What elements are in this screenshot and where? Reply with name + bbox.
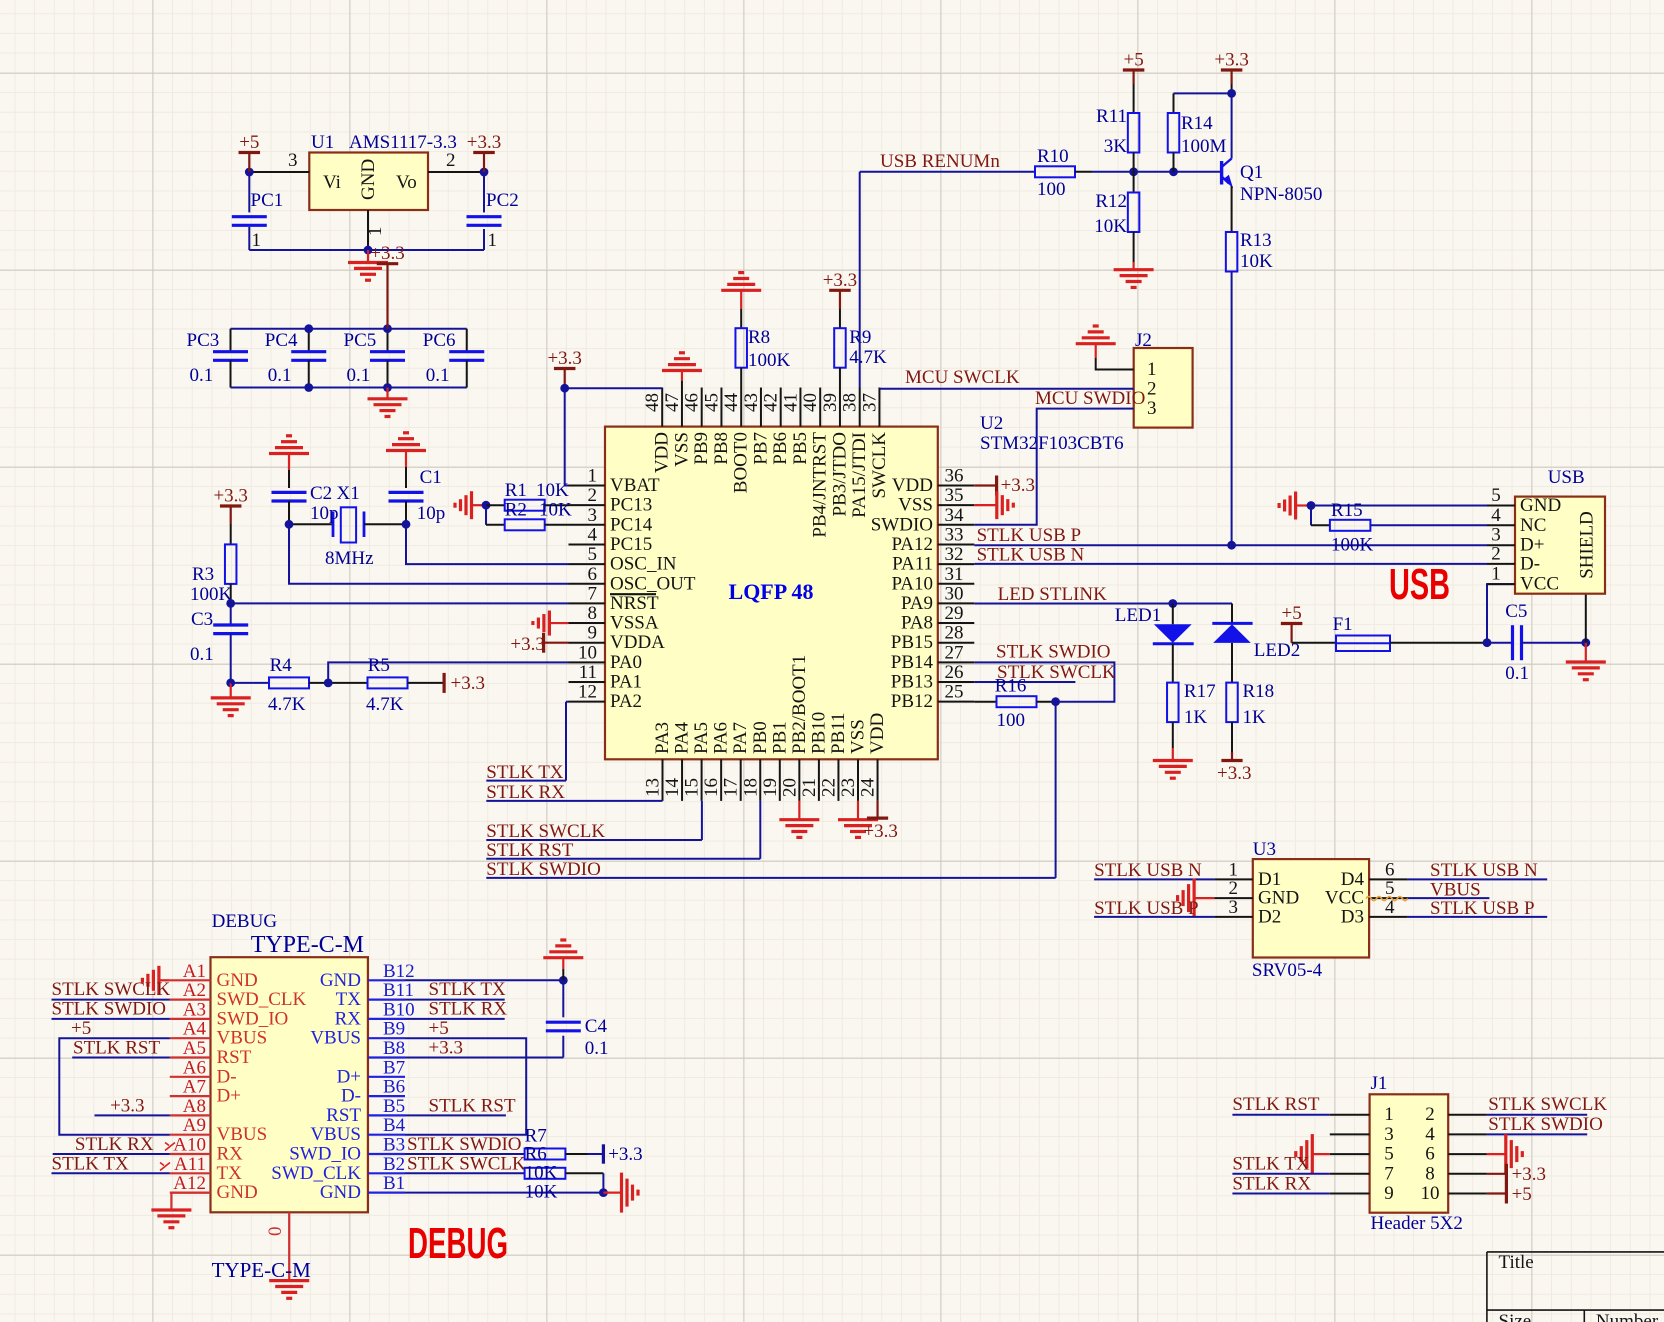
svg-text:28: 28 — [945, 623, 964, 644]
svg-text:37: 37 — [859, 393, 880, 412]
svg-text:VSS: VSS — [671, 432, 692, 467]
svg-text:11: 11 — [579, 662, 597, 683]
svg-text:4: 4 — [588, 524, 598, 545]
svg-text:32: 32 — [945, 544, 964, 565]
svg-text:Size: Size — [1499, 1311, 1532, 1322]
svg-text:A5: A5 — [183, 1038, 206, 1059]
svg-text:9: 9 — [1384, 1183, 1394, 1204]
svg-text:R16: R16 — [995, 676, 1027, 697]
svg-text:+3.3: +3.3 — [863, 821, 897, 842]
svg-text:R18: R18 — [1243, 681, 1275, 702]
svg-text:VSS: VSS — [898, 495, 933, 516]
svg-text:GND: GND — [320, 1182, 361, 1203]
svg-text:USB: USB — [1548, 467, 1585, 488]
svg-text:+3.3: +3.3 — [1217, 763, 1251, 784]
svg-text:10: 10 — [578, 642, 597, 663]
svg-text:+3.3: +3.3 — [1001, 475, 1035, 496]
svg-text:PB15: PB15 — [891, 632, 933, 653]
svg-text:GND: GND — [1520, 495, 1561, 516]
svg-text:STLK SWCLK: STLK SWCLK — [486, 821, 605, 842]
svg-text:STLK USB N: STLK USB N — [1430, 860, 1538, 881]
svg-text:A4: A4 — [183, 1019, 207, 1040]
svg-text:PB5: PB5 — [790, 432, 811, 465]
svg-text:3: 3 — [1384, 1124, 1394, 1145]
svg-text:39: 39 — [820, 393, 841, 412]
svg-text:R13: R13 — [1240, 230, 1272, 251]
svg-text:SWD_IO: SWD_IO — [289, 1144, 361, 1165]
svg-text:RX: RX — [217, 1144, 244, 1165]
svg-text:VBUS: VBUS — [310, 1028, 361, 1049]
svg-text:STLK USB P: STLK USB P — [1094, 898, 1199, 919]
svg-text:4.7K: 4.7K — [849, 347, 887, 368]
svg-text:B4: B4 — [383, 1115, 406, 1136]
svg-text:LED STLINK: LED STLINK — [998, 584, 1108, 605]
svg-text:10p: 10p — [417, 503, 446, 524]
svg-text:SWD_CLK: SWD_CLK — [217, 989, 307, 1010]
svg-text:27: 27 — [945, 642, 964, 663]
svg-text:4.7K: 4.7K — [268, 694, 306, 715]
svg-text:9: 9 — [588, 623, 598, 644]
svg-text:PC4: PC4 — [265, 330, 298, 351]
svg-text:VBUS: VBUS — [310, 1124, 361, 1145]
svg-text:VSSA: VSSA — [610, 613, 659, 634]
svg-text:5: 5 — [1491, 485, 1501, 506]
svg-text:OSC_IN: OSC_IN — [610, 554, 677, 575]
svg-text:C5: C5 — [1505, 601, 1527, 622]
svg-text:C3: C3 — [191, 609, 213, 630]
svg-text:B3: B3 — [383, 1135, 405, 1156]
svg-text:B6: B6 — [383, 1077, 405, 1098]
svg-text:TX: TX — [217, 1163, 243, 1184]
svg-text:45: 45 — [701, 393, 722, 412]
svg-text:33: 33 — [945, 524, 964, 545]
svg-text:STLK USB P: STLK USB P — [1430, 898, 1535, 919]
svg-text:PC15: PC15 — [610, 534, 652, 555]
svg-text:VBUS: VBUS — [217, 1028, 268, 1049]
svg-text:B7: B7 — [383, 1057, 405, 1078]
svg-text:STLK SWDIO: STLK SWDIO — [486, 859, 601, 880]
svg-text:PA15/JTDI: PA15/JTDI — [849, 432, 870, 518]
svg-text:10K: 10K — [1240, 251, 1273, 272]
svg-text:VBUS: VBUS — [217, 1124, 268, 1145]
svg-text:0: 0 — [265, 1227, 286, 1237]
svg-text:SHIELD: SHIELD — [1577, 511, 1598, 579]
svg-text:R5: R5 — [368, 655, 390, 676]
svg-text:24: 24 — [858, 778, 879, 798]
svg-text:2: 2 — [446, 150, 456, 171]
svg-text:1: 1 — [252, 230, 262, 251]
svg-text:1: 1 — [488, 230, 498, 251]
svg-text:STLK SWCLK: STLK SWCLK — [407, 1154, 526, 1175]
svg-text:STLK TX: STLK TX — [52, 1154, 130, 1175]
svg-text:Vi: Vi — [323, 172, 341, 193]
svg-text:VBAT: VBAT — [610, 475, 660, 496]
svg-text:8: 8 — [1425, 1163, 1435, 1184]
svg-text:23: 23 — [838, 778, 859, 797]
svg-text:15: 15 — [682, 778, 703, 797]
svg-text:1: 1 — [588, 466, 598, 487]
svg-text:U2: U2 — [980, 413, 1003, 434]
svg-text:VSS: VSS — [848, 719, 869, 754]
svg-text:PB9: PB9 — [691, 432, 712, 465]
svg-text:5: 5 — [588, 544, 598, 565]
svg-text:STLK USB P: STLK USB P — [977, 525, 1082, 546]
svg-text:18: 18 — [740, 778, 761, 797]
svg-text:A8: A8 — [183, 1096, 206, 1117]
svg-text:B12: B12 — [383, 961, 415, 982]
svg-text:STM32F103CBT6: STM32F103CBT6 — [980, 433, 1124, 454]
svg-text:NRST: NRST — [610, 593, 659, 614]
svg-text:STLK TX: STLK TX — [1232, 1154, 1310, 1175]
svg-text:10K: 10K — [525, 1182, 558, 1203]
svg-text:100: 100 — [1037, 179, 1066, 200]
svg-text:30: 30 — [945, 583, 964, 604]
svg-text:A7: A7 — [183, 1077, 206, 1098]
svg-text:10: 10 — [1421, 1183, 1440, 1204]
svg-text:USB: USB — [1389, 560, 1450, 609]
svg-text:+3.3: +3.3 — [467, 132, 501, 153]
svg-text:VDD: VDD — [867, 713, 888, 754]
svg-text:STLK SWDIO: STLK SWDIO — [996, 642, 1111, 663]
svg-text:Header 5X2: Header 5X2 — [1371, 1213, 1463, 1234]
svg-text:8MHz: 8MHz — [325, 548, 374, 569]
svg-text:5: 5 — [1384, 1144, 1394, 1165]
svg-text:J1: J1 — [1371, 1073, 1388, 1094]
svg-text:PB14: PB14 — [891, 652, 934, 673]
svg-text:PA4: PA4 — [672, 721, 693, 754]
svg-text:PC2: PC2 — [486, 190, 519, 211]
svg-text:+3.3: +3.3 — [1512, 1164, 1546, 1185]
svg-text:A2: A2 — [183, 980, 206, 1001]
svg-text:D+: D+ — [337, 1066, 361, 1087]
svg-text:DEBUG: DEBUG — [212, 911, 278, 932]
svg-text:RX: RX — [335, 1008, 362, 1029]
svg-text:PA5: PA5 — [691, 722, 712, 754]
svg-text:B10: B10 — [383, 999, 415, 1020]
svg-text:R14: R14 — [1181, 113, 1213, 134]
svg-text:PA7: PA7 — [730, 722, 751, 754]
svg-text:VDD: VDD — [892, 475, 933, 496]
svg-text:D-: D- — [217, 1066, 237, 1087]
svg-text:34: 34 — [945, 505, 965, 526]
svg-text:0.1: 0.1 — [190, 644, 214, 665]
svg-text:SRV05-4: SRV05-4 — [1252, 960, 1323, 981]
svg-text:8: 8 — [588, 603, 598, 624]
svg-text:PB12: PB12 — [891, 691, 933, 712]
svg-text:1K: 1K — [1243, 707, 1267, 728]
svg-text:PA1: PA1 — [610, 672, 642, 693]
svg-text:A11: A11 — [174, 1154, 206, 1175]
svg-text:VDDA: VDDA — [610, 632, 665, 653]
svg-text:PA11: PA11 — [892, 554, 933, 575]
svg-text:STLK USB N: STLK USB N — [977, 545, 1085, 566]
svg-text:STLK SWCLK: STLK SWCLK — [1488, 1094, 1607, 1115]
svg-text:PA12: PA12 — [891, 534, 933, 555]
svg-text:DEBUG: DEBUG — [408, 1219, 508, 1268]
svg-text:+5: +5 — [1281, 603, 1301, 624]
svg-text:4: 4 — [1425, 1124, 1435, 1145]
svg-text:PB7: PB7 — [750, 432, 771, 465]
svg-text:10p: 10p — [310, 503, 339, 524]
svg-text:100K: 100K — [748, 350, 791, 371]
svg-text:19: 19 — [760, 778, 781, 797]
svg-text:SWD_CLK: SWD_CLK — [271, 1163, 361, 1184]
svg-text:A1: A1 — [183, 961, 206, 982]
svg-text:10K: 10K — [525, 1163, 558, 1184]
svg-text:D-: D- — [1520, 553, 1540, 574]
svg-text:STLK RX: STLK RX — [1232, 1174, 1311, 1195]
svg-text:PC6: PC6 — [423, 330, 456, 351]
svg-text:STLK RX: STLK RX — [429, 999, 508, 1020]
svg-text:PC5: PC5 — [344, 330, 377, 351]
svg-text:48: 48 — [642, 393, 663, 412]
svg-text:100: 100 — [997, 710, 1026, 731]
svg-text:PA0: PA0 — [610, 652, 642, 673]
svg-text:10K: 10K — [1094, 216, 1127, 237]
svg-text:1: 1 — [1147, 359, 1157, 380]
svg-text:0.1: 0.1 — [190, 365, 214, 386]
svg-text:GND: GND — [320, 970, 361, 991]
svg-text:D+: D+ — [217, 1086, 241, 1107]
svg-text:STLK RX: STLK RX — [486, 782, 565, 803]
svg-text:+3.3: +3.3 — [823, 270, 857, 291]
svg-text:PA3: PA3 — [652, 722, 673, 754]
svg-text:13: 13 — [643, 778, 664, 797]
svg-text:D3: D3 — [1341, 906, 1364, 927]
svg-text:2: 2 — [1425, 1104, 1435, 1125]
svg-text:PB8: PB8 — [711, 432, 732, 465]
svg-text:22: 22 — [818, 778, 839, 797]
svg-text:PB6: PB6 — [770, 432, 791, 465]
svg-text:R17: R17 — [1184, 681, 1216, 702]
svg-text:B9: B9 — [383, 1019, 405, 1040]
svg-text:+5: +5 — [239, 132, 259, 153]
svg-text:STLK RST: STLK RST — [73, 1038, 160, 1059]
svg-text:MCU SWDIO: MCU SWDIO — [1035, 388, 1145, 409]
svg-text:Q1: Q1 — [1240, 162, 1263, 183]
svg-text:STLK RX: STLK RX — [75, 1134, 154, 1155]
svg-text:RST: RST — [326, 1105, 361, 1126]
svg-text:TYPE-C-M: TYPE-C-M — [212, 1258, 311, 1282]
svg-text:PB10: PB10 — [808, 712, 829, 754]
svg-text:38: 38 — [840, 393, 861, 412]
svg-text:NC: NC — [1520, 515, 1546, 536]
svg-text:+3.3: +3.3 — [213, 486, 247, 507]
svg-text:Number: Number — [1596, 1311, 1659, 1322]
svg-text:100K: 100K — [190, 584, 233, 605]
svg-text:46: 46 — [682, 393, 703, 412]
svg-text:PB2/BOOT1: PB2/BOOT1 — [789, 655, 810, 754]
svg-text:40: 40 — [800, 393, 821, 412]
svg-text:C2: C2 — [310, 483, 332, 504]
svg-text:3: 3 — [1229, 897, 1239, 918]
svg-text:AMS1117-3.3: AMS1117-3.3 — [349, 132, 457, 153]
svg-text:B2: B2 — [383, 1154, 405, 1175]
svg-text:7: 7 — [588, 583, 598, 604]
svg-text:R8: R8 — [748, 327, 770, 348]
svg-text:STLK RST: STLK RST — [429, 1096, 516, 1117]
svg-text:STLK SWDIO: STLK SWDIO — [52, 999, 167, 1020]
svg-text:LED1: LED1 — [1115, 605, 1161, 626]
svg-text:3: 3 — [588, 505, 598, 526]
svg-text:GND: GND — [358, 159, 379, 200]
svg-text:F1: F1 — [1333, 614, 1353, 635]
svg-text:RST: RST — [217, 1047, 252, 1068]
svg-text:D2: D2 — [1258, 906, 1281, 927]
svg-text:PB11: PB11 — [828, 712, 849, 754]
svg-text:4: 4 — [1491, 505, 1501, 526]
svg-text:35: 35 — [945, 485, 964, 506]
svg-text:31: 31 — [945, 564, 964, 585]
svg-text:A3: A3 — [183, 999, 206, 1020]
svg-text:GND: GND — [217, 970, 258, 991]
svg-text:B8: B8 — [383, 1038, 405, 1059]
svg-text:+3.3: +3.3 — [370, 243, 404, 264]
svg-text:R2: R2 — [505, 500, 527, 521]
svg-text:R15: R15 — [1331, 500, 1363, 521]
svg-text:SWDIO: SWDIO — [871, 514, 933, 535]
svg-text:6: 6 — [1425, 1144, 1435, 1165]
svg-text:0.1: 0.1 — [426, 365, 450, 386]
svg-text:C4: C4 — [585, 1016, 608, 1037]
svg-text:47: 47 — [662, 393, 683, 412]
svg-text:PA8: PA8 — [901, 613, 933, 634]
svg-text:R6: R6 — [525, 1144, 547, 1165]
svg-text:B5: B5 — [383, 1096, 405, 1117]
svg-text:B11: B11 — [383, 980, 414, 1001]
svg-text:12: 12 — [578, 682, 597, 703]
svg-text:OSC_OUT: OSC_OUT — [610, 573, 696, 594]
svg-text:PA10: PA10 — [891, 573, 933, 594]
svg-text:SWD_IO: SWD_IO — [217, 1008, 289, 1029]
svg-text:+3.3: +3.3 — [608, 1144, 642, 1165]
svg-text:36: 36 — [945, 466, 964, 487]
svg-text:+5: +5 — [71, 1018, 91, 1039]
svg-text:A10: A10 — [173, 1135, 206, 1156]
svg-text:USB RENUMn: USB RENUMn — [880, 151, 1000, 172]
svg-text:PA6: PA6 — [711, 722, 732, 754]
svg-text:STLK SWDIO: STLK SWDIO — [1488, 1114, 1603, 1135]
svg-text:R10: R10 — [1037, 146, 1069, 167]
svg-text:+5: +5 — [1123, 50, 1143, 71]
svg-text:A12: A12 — [173, 1173, 206, 1194]
svg-text:TX: TX — [336, 989, 362, 1010]
svg-text:STLK SWDIO: STLK SWDIO — [407, 1134, 522, 1155]
svg-text:TYPE-C-M: TYPE-C-M — [251, 932, 364, 958]
svg-text:R3: R3 — [192, 564, 214, 585]
svg-text:SWCLK: SWCLK — [869, 432, 890, 499]
svg-text:R1: R1 — [505, 480, 527, 501]
svg-text:Title: Title — [1499, 1252, 1534, 1273]
svg-text:1: 1 — [1384, 1104, 1394, 1125]
svg-text:STLK TX: STLK TX — [429, 979, 507, 1000]
svg-text:44: 44 — [721, 393, 742, 413]
svg-text:1: 1 — [1491, 564, 1501, 585]
svg-text:PC13: PC13 — [610, 495, 652, 516]
svg-text:100M: 100M — [1181, 136, 1227, 157]
svg-text:21: 21 — [799, 778, 820, 797]
svg-text:16: 16 — [701, 778, 722, 797]
svg-text:6: 6 — [588, 564, 598, 585]
svg-text:A6: A6 — [183, 1057, 206, 1078]
svg-text:B1: B1 — [383, 1173, 405, 1194]
svg-text:LQFP 48: LQFP 48 — [729, 579, 814, 604]
svg-text:U1: U1 — [311, 132, 334, 153]
svg-text:STLK SWCLK: STLK SWCLK — [52, 979, 171, 1000]
svg-text:+3.3: +3.3 — [547, 348, 581, 369]
svg-text:PA2: PA2 — [610, 691, 642, 712]
svg-text:14: 14 — [662, 778, 683, 798]
svg-text:PA9: PA9 — [901, 593, 933, 614]
svg-text:J2: J2 — [1135, 330, 1152, 351]
svg-text:10K: 10K — [539, 500, 572, 521]
svg-text:3: 3 — [288, 150, 298, 171]
svg-text:+3.3: +3.3 — [451, 673, 485, 694]
svg-text:0.1: 0.1 — [1505, 663, 1529, 684]
svg-text:A9: A9 — [183, 1115, 206, 1136]
svg-text:U3: U3 — [1253, 839, 1276, 860]
svg-text:X1: X1 — [337, 483, 360, 504]
svg-text:VDD: VDD — [652, 432, 673, 473]
svg-text:0.1: 0.1 — [268, 365, 292, 386]
svg-text:PB3/JTDO: PB3/JTDO — [829, 432, 850, 516]
svg-text:0.1: 0.1 — [585, 1038, 609, 1059]
svg-text:+3.3: +3.3 — [429, 1038, 463, 1059]
svg-text:43: 43 — [741, 393, 762, 412]
svg-text:D-: D- — [341, 1086, 361, 1107]
svg-text:26: 26 — [945, 662, 964, 683]
svg-text:PB13: PB13 — [891, 672, 933, 693]
svg-text:C1: C1 — [420, 467, 442, 488]
svg-text:4.7K: 4.7K — [366, 694, 404, 715]
svg-text:R4: R4 — [270, 655, 293, 676]
svg-text:STLK RST: STLK RST — [1232, 1094, 1319, 1115]
svg-text:+3.3: +3.3 — [510, 634, 544, 655]
svg-text:NPN-8050: NPN-8050 — [1240, 184, 1322, 205]
svg-text:PB4/JNTRST: PB4/JNTRST — [810, 432, 831, 538]
svg-text:+3.3: +3.3 — [1214, 50, 1248, 71]
svg-text:PB1: PB1 — [769, 721, 790, 754]
svg-text:BOOT0: BOOT0 — [731, 432, 752, 493]
svg-text:R12: R12 — [1095, 191, 1127, 212]
svg-text:3: 3 — [1147, 398, 1157, 419]
svg-text:GND: GND — [217, 1182, 258, 1203]
svg-text:STLK USB N: STLK USB N — [1094, 860, 1202, 881]
svg-text:0.1: 0.1 — [347, 365, 371, 386]
svg-text:25: 25 — [945, 682, 964, 703]
svg-text:PC14: PC14 — [610, 514, 653, 535]
svg-text:VCC: VCC — [1520, 574, 1559, 595]
svg-text:17: 17 — [721, 778, 742, 797]
svg-text:3K: 3K — [1104, 136, 1128, 157]
svg-text:R11: R11 — [1096, 106, 1127, 127]
svg-text:PC1: PC1 — [251, 190, 284, 211]
svg-text:20: 20 — [779, 778, 800, 797]
svg-text:2: 2 — [588, 485, 598, 506]
svg-text:7: 7 — [1384, 1163, 1394, 1184]
svg-text:29: 29 — [945, 603, 964, 624]
svg-text:1K: 1K — [1184, 707, 1208, 728]
svg-text:+5: +5 — [429, 1018, 449, 1039]
svg-text:+3.3: +3.3 — [110, 1096, 144, 1117]
svg-text:42: 42 — [761, 393, 782, 412]
svg-text:Vo: Vo — [396, 172, 417, 193]
svg-text:PC3: PC3 — [187, 330, 220, 351]
svg-text:2: 2 — [1147, 378, 1157, 399]
svg-text:41: 41 — [780, 393, 801, 412]
svg-text:+5: +5 — [1512, 1184, 1532, 1205]
svg-text:MCU SWCLK: MCU SWCLK — [905, 367, 1020, 388]
